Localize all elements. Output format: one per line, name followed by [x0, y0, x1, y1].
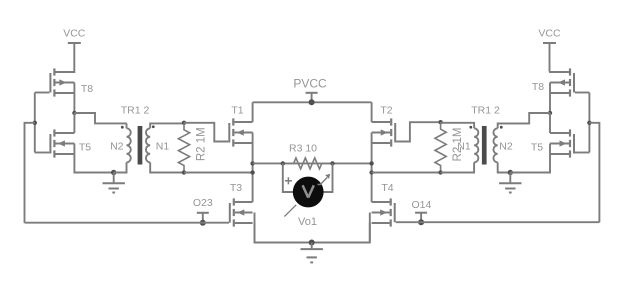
phase dot N2 — [121, 126, 124, 129]
wire R2 top to T1 gate — [184, 123, 228, 142]
wire T4 source terminal — [369, 223, 371, 243]
transformer right winding N1 coil — [474, 128, 478, 162]
wire R3 rail — [253, 162, 372, 164]
wire PVCC rail — [253, 101, 372, 103]
wire node B to R2 right bottom — [372, 172, 441, 174]
transformer right winding N2 bottom lead — [498, 162, 511, 172]
wire T3 source/body down — [255, 213, 312, 243]
resistor R2 (left) — [178, 123, 189, 173]
svg-text:R2 1M: R2 1M — [452, 128, 464, 162]
transformer TR1 winding N1 top lead — [150, 123, 184, 128]
wire T2 source to node B — [371, 133, 373, 203]
junction R2 right top — [438, 120, 442, 124]
wire node to transformer N2 top — [74, 113, 126, 123]
wire T2 drain to PVCC rail — [371, 102, 373, 122]
voltmeter plus mark — [285, 177, 292, 184]
svg-text:T3: T3 — [230, 182, 242, 194]
wire VCC to T8 drain — [56, 71, 75, 74]
wire gate bus right to feedback — [589, 123, 599, 222]
svg-text:N1: N1 — [156, 141, 170, 153]
junction R2 bottom — [182, 170, 186, 174]
wire T1 drain to PVCC rail — [252, 102, 254, 122]
junction right ground node — [508, 170, 513, 175]
ground right — [499, 173, 521, 193]
wire right T5 drain to node — [549, 113, 551, 133]
junction node B / R3 right — [369, 161, 373, 165]
junction T8-T5 node — [72, 111, 76, 115]
voltmeter needle — [284, 205, 296, 217]
svg-text:N2: N2 — [499, 141, 513, 153]
junction right T8-T5 node — [548, 111, 552, 115]
junction gate bus left — [33, 121, 37, 125]
junction R3 right / meter - — [330, 161, 334, 165]
ground left — [103, 173, 125, 193]
junction R3 left / meter + — [281, 161, 285, 165]
phase dot N1 — [152, 125, 155, 128]
wire right T8 gate — [575, 92, 589, 94]
svg-text:TR1 2: TR1 2 — [471, 105, 500, 117]
transistor T4 — [372, 198, 395, 226]
svg-text:R2 1M: R2 1M — [195, 127, 207, 161]
transistor T8 (left) — [50, 68, 74, 96]
junction node B / N1 return right — [369, 170, 373, 174]
wire O23 bus — [25, 222, 230, 224]
wire T4 source/body down — [312, 213, 370, 243]
node O23 probe — [197, 213, 209, 223]
transformer right winding N2 coil — [493, 128, 497, 162]
node PVCC probe — [306, 93, 318, 103]
transformer right winding N2 top lead — [498, 123, 530, 128]
wire O14 bus — [396, 221, 600, 223]
wire gate bus right vertical — [588, 93, 590, 153]
junction left ground node — [111, 170, 116, 175]
wire right T5 source down — [510, 144, 550, 173]
transistor T2 — [372, 118, 396, 146]
wire meter + lead — [283, 163, 294, 192]
resistor R2 (right) — [435, 122, 446, 172]
wire gate bus to feedback — [25, 123, 35, 223]
wire T3 source terminal — [254, 223, 256, 243]
voltmeter arrow mark — [318, 174, 331, 185]
wire right T8 source/body to node — [549, 83, 551, 114]
transistor T5 (right) — [550, 129, 574, 157]
wire T5 gate — [35, 152, 50, 154]
power VCC right symbol — [543, 43, 556, 72]
svg-text:VCC: VCC — [538, 28, 561, 40]
resistor R3 — [283, 158, 333, 169]
junction node A / N1 return — [250, 170, 254, 174]
transistor T1 — [229, 118, 252, 146]
transistor T8 (right) — [550, 68, 574, 96]
transformer TR1 winding N2 coil — [127, 128, 131, 162]
svg-text:T5: T5 — [531, 142, 543, 154]
svg-text:Vo1: Vo1 — [298, 216, 317, 228]
wire R2 bottom to bridge node A — [184, 172, 253, 174]
wire T8 gate — [35, 92, 50, 94]
wire right node to transformer N2 top — [498, 113, 550, 123]
svg-text:O23: O23 — [193, 197, 213, 209]
transformer TR1 winding N1 coil — [146, 128, 150, 162]
transformer TR1 core — [138, 126, 143, 165]
junction node A / R3 left — [250, 161, 254, 165]
svg-text:O14: O14 — [411, 199, 431, 211]
junction R2 top — [182, 121, 186, 125]
wire gate bus left vertical — [34, 93, 36, 153]
wire T5 source down — [74, 144, 113, 173]
svg-text:VCC: VCC — [63, 28, 86, 40]
svg-text:T8: T8 — [532, 81, 544, 93]
transformer right winding N1 bottom lead — [441, 162, 475, 172]
voltmeter Vo1 body — [293, 177, 324, 208]
wire VCC to right T8 drain — [550, 71, 569, 74]
wire meter - lead — [323, 163, 332, 192]
svg-text:N2: N2 — [110, 141, 124, 153]
svg-text:T8: T8 — [81, 83, 93, 95]
phase dot N1 right — [469, 126, 472, 129]
wire right T5 gate — [575, 152, 589, 154]
transistor T3 — [230, 198, 253, 226]
transformer TR1 winding N2 bottom lead — [114, 162, 127, 172]
wire T8 source/body to node — [73, 83, 75, 114]
svg-text:T4: T4 — [381, 182, 393, 194]
junction center ground — [309, 240, 315, 246]
wire T2 gate to R2 right — [396, 122, 440, 141]
transformer right core — [482, 126, 487, 165]
svg-text:R3 10: R3 10 — [289, 143, 317, 155]
transistor T5 (left) — [50, 129, 74, 157]
svg-text:TR1 2: TR1 2 — [121, 105, 150, 117]
svg-text:PVCC: PVCC — [293, 77, 327, 91]
ground center — [301, 243, 323, 263]
svg-text:T1: T1 — [231, 105, 243, 117]
transformer TR1 winding N1 bottom lead — [150, 162, 184, 172]
node O14 probe — [415, 213, 427, 223]
transformer right winding N1 top lead — [441, 123, 475, 129]
svg-text:T2: T2 — [380, 105, 392, 117]
wire T5 drain to node — [73, 113, 75, 133]
junction gate bus right — [587, 121, 591, 125]
phase dot N2 right — [500, 126, 503, 129]
wire T1 source to node A — [252, 133, 254, 203]
svg-text:T5: T5 — [79, 142, 91, 154]
transformer TR1 winding N2 top lead — [126, 123, 128, 128]
junction R2 right bottom — [438, 170, 442, 174]
power VCC left symbol — [68, 43, 81, 72]
